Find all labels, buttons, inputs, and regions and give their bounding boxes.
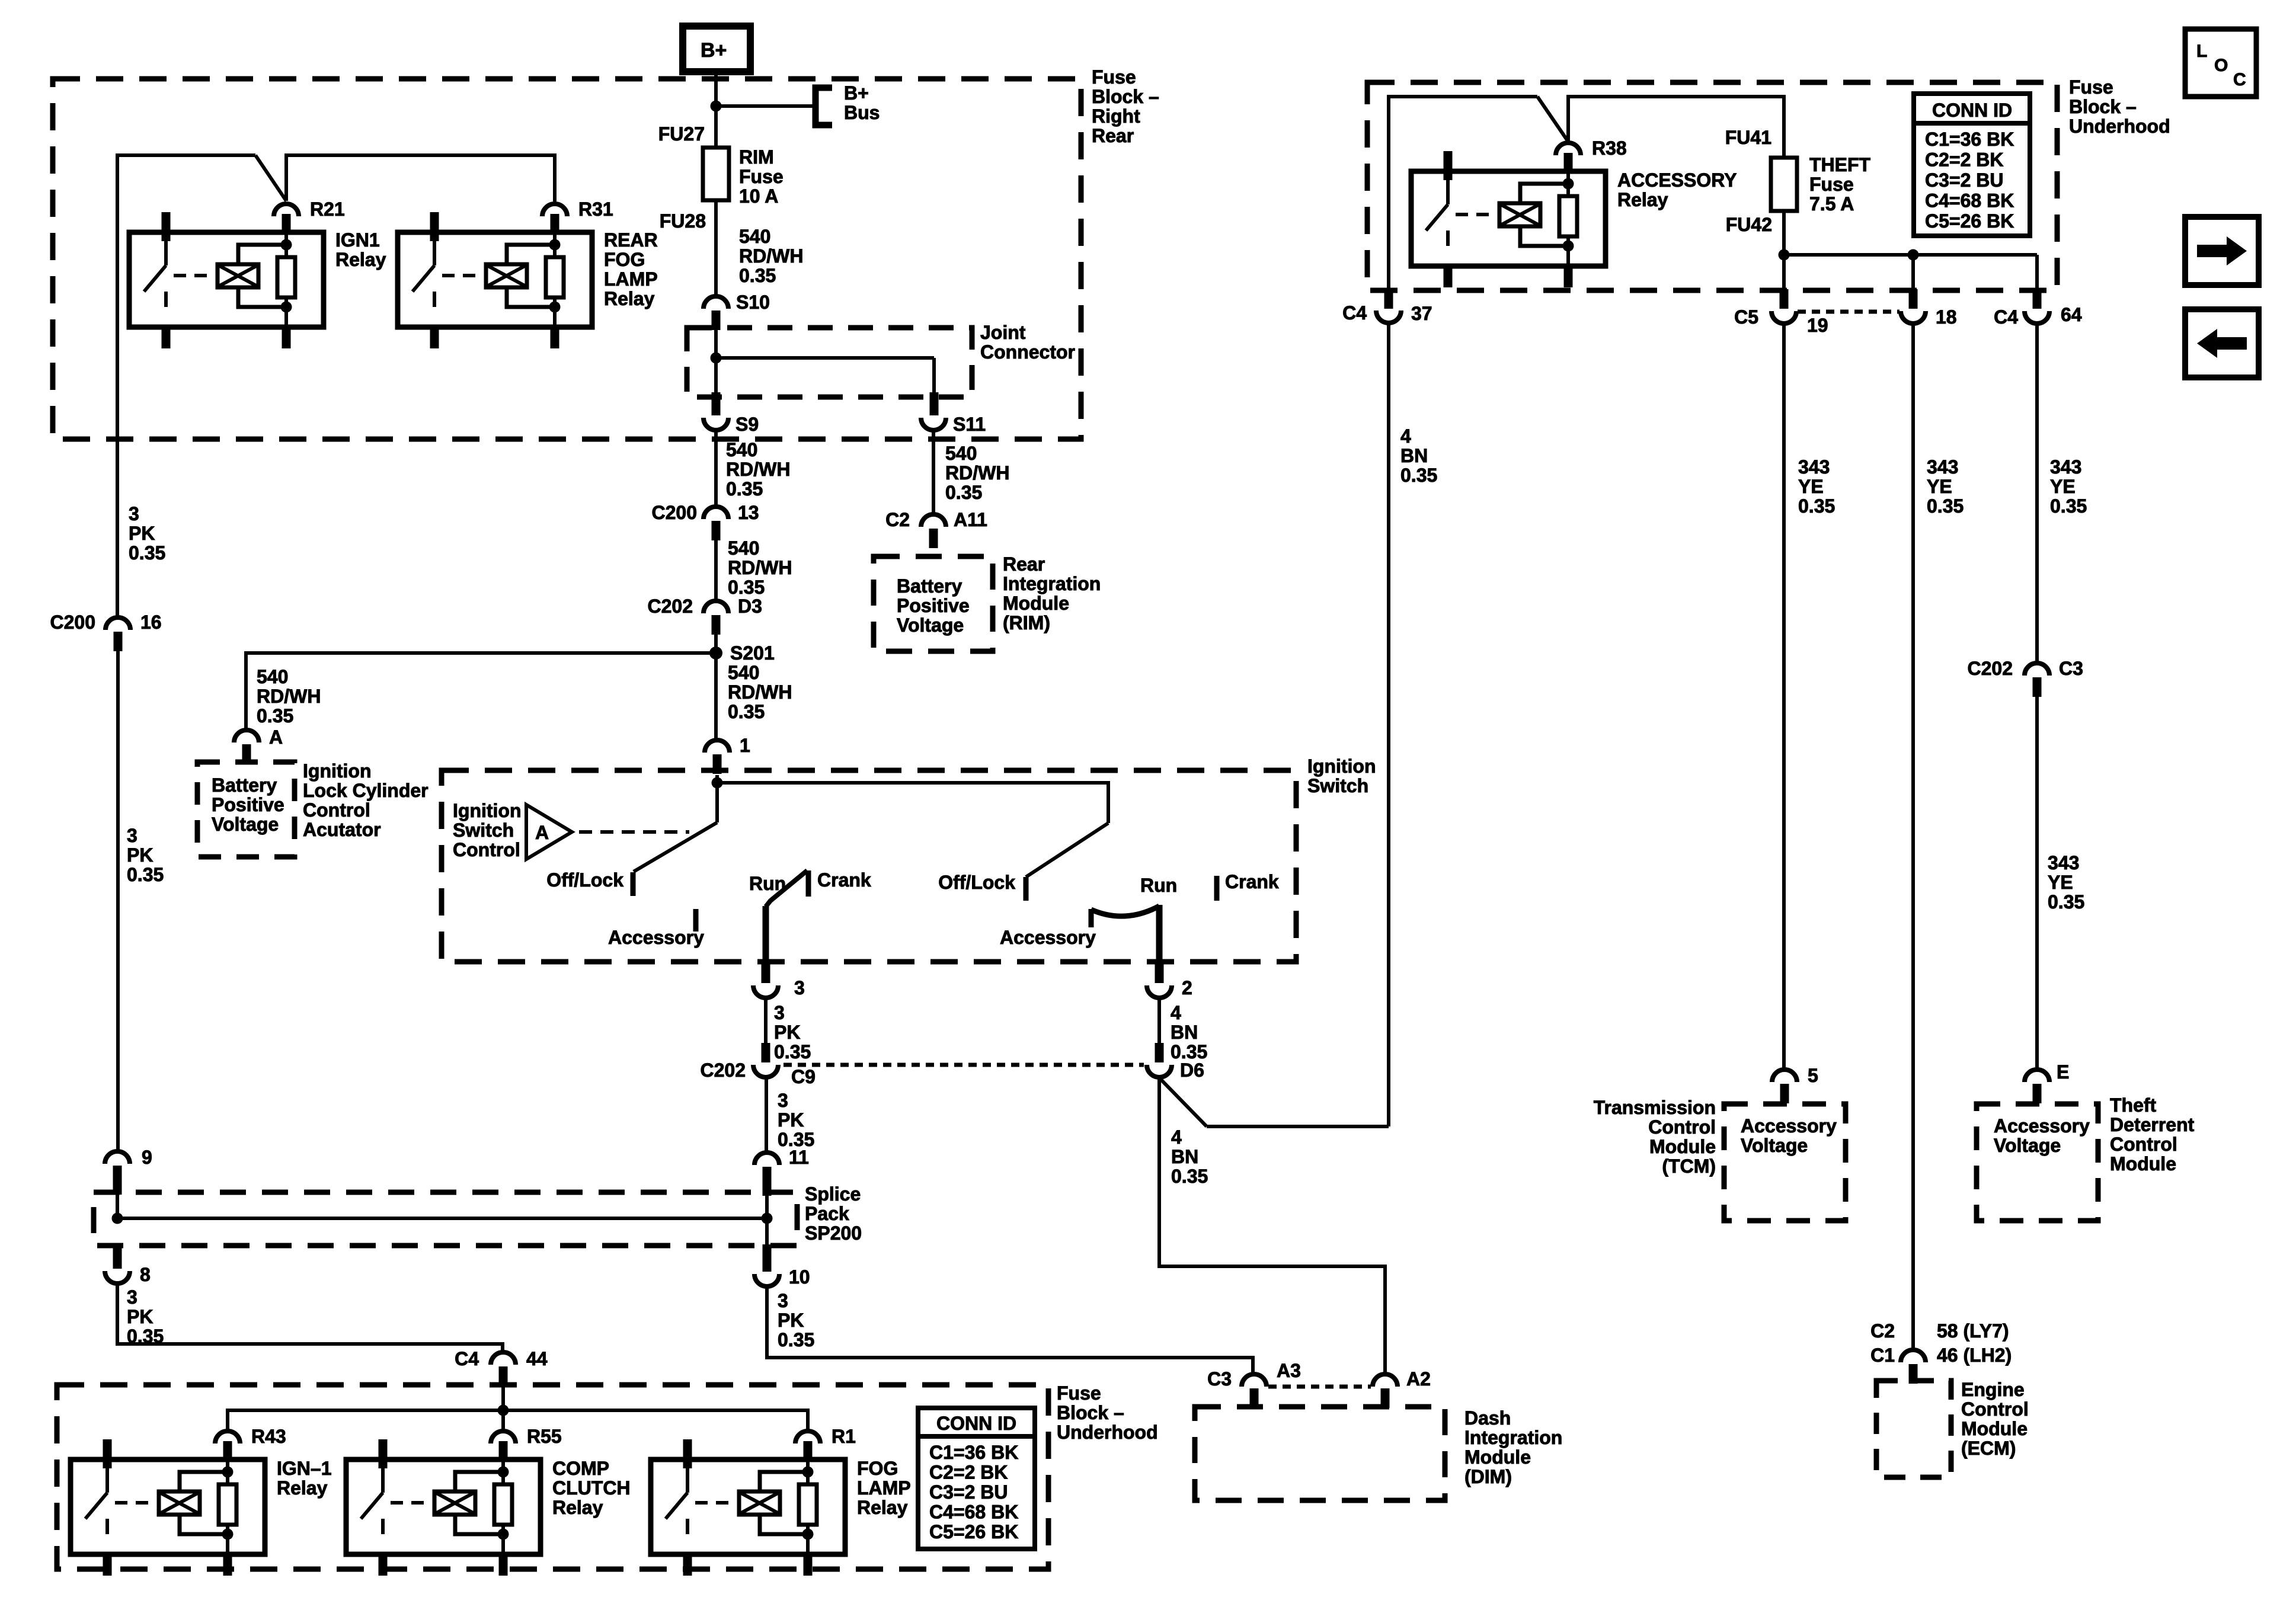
svg-text:2: 2: [1182, 977, 1192, 998]
wire D6 jog to riser: [1160, 1079, 1389, 1126]
wire fuse to bus: [1782, 211, 1786, 255]
wire C200-16 down: [116, 651, 120, 1152]
relay R1 (fog lamp): [651, 1426, 856, 1576]
svg-text:Accessory: Accessory: [1741, 1115, 1837, 1137]
svg-text:FOG: FOG: [857, 1458, 898, 1479]
wire 19 down: [1782, 324, 1786, 1070]
svg-text:C200: C200: [50, 612, 96, 633]
svg-text:Underhood: Underhood: [1057, 1422, 1158, 1443]
svg-text:58 (LY7): 58 (LY7): [1937, 1320, 2009, 1342]
contact run bank1: [749, 870, 807, 907]
node splice right: [762, 1213, 773, 1224]
svg-text:C4: C4: [455, 1348, 479, 1369]
fuse block underhood label (bottom): [1057, 1382, 1158, 1443]
svg-text:343: 343: [1798, 456, 1830, 478]
connector ignition pin 3: [753, 962, 805, 998]
svg-text:Module: Module: [2110, 1153, 2176, 1174]
svg-text:C200: C200: [652, 502, 698, 523]
svg-text:Voltage: Voltage: [1741, 1135, 1808, 1156]
wire label 4 BN 0.35 (pin2): [1171, 1002, 1207, 1062]
connector C4 pin 37: [1342, 289, 1432, 324]
fuse block underhood dashed box (top): [1367, 82, 2057, 290]
svg-text:D6: D6: [1180, 1060, 1204, 1081]
svg-text:3: 3: [774, 1002, 785, 1023]
joint connector box: [687, 328, 972, 397]
svg-text:4: 4: [1171, 1126, 1182, 1148]
svg-text:Acutator: Acutator: [303, 819, 381, 840]
svg-text:0.35: 0.35: [1798, 495, 1835, 517]
wire 8 down to C4-44: [117, 1283, 503, 1352]
fog lamp relay label: [857, 1458, 911, 1518]
connector C202 pin D3: [648, 596, 762, 635]
ignition switch dashed box: [442, 770, 1296, 962]
svg-text:0.35: 0.35: [728, 577, 765, 598]
wire bus R21 to R31: [286, 155, 555, 201]
relay R21 (IGN1): [129, 199, 345, 348]
svg-text:D3: D3: [738, 596, 762, 617]
svg-text:Fuse: Fuse: [1057, 1382, 1101, 1404]
rear integration module label: [1003, 553, 1101, 633]
svg-text:A3: A3: [1277, 1360, 1301, 1381]
theft deterrent control module label: [2110, 1094, 2195, 1174]
contact off/lock bank1: [546, 869, 633, 896]
svg-text:3: 3: [127, 825, 137, 846]
wire 64 down: [2035, 324, 2039, 663]
contact accessory bank2: [1000, 909, 1096, 948]
svg-text:Relay: Relay: [857, 1497, 908, 1518]
connector C200 pin 16: [50, 612, 162, 651]
svg-text:R38: R38: [1592, 137, 1627, 159]
svg-text:S10: S10: [736, 292, 770, 313]
svg-text:C2: C2: [885, 509, 910, 530]
theft fuse label: [1809, 154, 1871, 215]
svg-text:10 A: 10 A: [739, 185, 778, 207]
svg-text:C3: C3: [1207, 1368, 1232, 1390]
svg-text:S9: S9: [736, 414, 759, 435]
svg-text:C2: C2: [1870, 1320, 1895, 1342]
svg-text:YE: YE: [2048, 872, 2073, 893]
svg-text:540: 540: [726, 439, 757, 460]
svg-text:0.35: 0.35: [1927, 495, 1964, 517]
svg-text:0.35: 0.35: [129, 542, 165, 564]
svg-text:Fuse: Fuse: [1092, 66, 1136, 88]
svg-text:FU42: FU42: [1726, 214, 1772, 235]
svg-text:C202: C202: [648, 596, 693, 617]
svg-text:0.35: 0.35: [739, 265, 776, 286]
B+ bus terminal: [816, 82, 880, 125]
svg-text:Relay: Relay: [1617, 189, 1668, 210]
svg-text:PK: PK: [127, 1306, 153, 1327]
wire label 540 RD/WH 0.35 (fuse): [739, 226, 803, 286]
svg-text:540: 540: [945, 443, 977, 464]
svg-text:(RIM): (RIM): [1003, 612, 1050, 633]
svg-text:10: 10: [789, 1266, 810, 1288]
svg-text:Rear: Rear: [1092, 125, 1134, 146]
ignition lock cylinder label: [303, 760, 428, 840]
conn id table (top): [1914, 94, 2030, 236]
connector 8: [105, 1244, 151, 1285]
wire label 343 YE 0.35 (64): [2050, 456, 2087, 517]
svg-text:Accessory: Accessory: [1000, 927, 1096, 948]
svg-text:FU27: FU27: [658, 123, 705, 145]
wire label 540 RD/WH 0.35 (branch): [257, 666, 321, 726]
svg-text:1: 1: [740, 735, 750, 756]
svg-text:C1=36 BK: C1=36 BK: [1925, 129, 2014, 150]
svg-text:Crank: Crank: [1225, 871, 1279, 892]
svg-text:BN: BN: [1400, 445, 1428, 466]
svg-text:Module: Module: [1649, 1136, 1716, 1157]
svg-text:Switch: Switch: [1307, 775, 1368, 796]
svg-text:C: C: [2233, 70, 2246, 89]
svg-text:0.35: 0.35: [127, 1326, 164, 1347]
svg-text:Voltage: Voltage: [897, 614, 964, 636]
engine control module box: [1876, 1381, 1951, 1477]
svg-text:Off/Lock: Off/Lock: [938, 872, 1015, 893]
svg-text:B+: B+: [844, 82, 869, 104]
svg-text:LAMP: LAMP: [604, 268, 658, 290]
back arrow box: [2185, 309, 2259, 377]
wire bus corner to C4-64: [2035, 255, 2039, 292]
wire label 540 RD/WH 0.35 (S11): [945, 443, 1009, 503]
svg-text:0.35: 0.35: [774, 1041, 811, 1062]
svg-text:C3=2 BU: C3=2 BU: [929, 1481, 1008, 1503]
dashed control link: [579, 830, 689, 834]
svg-text:Voltage: Voltage: [212, 814, 279, 835]
dotted connector line C9-D6: [784, 1063, 1144, 1067]
wire pin1 into switch: [715, 775, 719, 783]
wire D6 down to DIM: [1159, 1077, 1385, 1374]
connector C202 pin D6: [1147, 1043, 1204, 1081]
splice bus line: [117, 1217, 767, 1220]
wire 9 into splice: [116, 1185, 119, 1218]
wire label 3 PK 0.35 (left1): [129, 503, 165, 564]
wire left column top: [117, 155, 255, 617]
svg-text:RD/WH: RD/WH: [728, 557, 792, 578]
svg-text:Rear: Rear: [1003, 553, 1045, 575]
svg-text:A11: A11: [954, 509, 987, 530]
svg-text:13: 13: [738, 502, 759, 523]
svg-text:Splice: Splice: [805, 1183, 861, 1205]
relay feed bus (bottom): [228, 1410, 808, 1430]
svg-text:C4: C4: [1994, 306, 2018, 328]
contact crank bank1: [808, 869, 871, 897]
svg-text:C202: C202: [1968, 658, 2013, 679]
svg-text:PK: PK: [127, 844, 153, 866]
svg-text:0.35: 0.35: [2050, 495, 2087, 517]
wire label 540 RD/WH 0.35 (S9): [726, 439, 790, 500]
contact accessory bank1: [608, 909, 704, 948]
svg-text:RD/WH: RD/WH: [257, 686, 321, 707]
ignition switch control triangle A: [526, 805, 572, 859]
svg-text:E: E: [2057, 1061, 2069, 1083]
svg-text:Positive: Positive: [897, 595, 970, 616]
svg-text:BN: BN: [1171, 1146, 1198, 1167]
svg-text:C2=2 BK: C2=2 BK: [929, 1462, 1008, 1483]
svg-text:Control: Control: [303, 799, 370, 821]
svg-text:A2: A2: [1406, 1368, 1431, 1390]
svg-text:16: 16: [140, 612, 162, 633]
wire C4-37 riser: [1389, 97, 1537, 308]
wire R38 to FU41: [1568, 97, 1784, 158]
wire label 540 RD/WH 0.35 (C200): [728, 537, 792, 598]
svg-text:(DIM): (DIM): [1464, 1466, 1512, 1487]
svg-text:Ignition: Ignition: [1307, 756, 1376, 777]
connector theft pin E: [2025, 1061, 2069, 1103]
svg-text:C4: C4: [1342, 302, 1367, 324]
connector 9: [105, 1147, 152, 1195]
wire C4-37 down: [1387, 324, 1390, 1126]
svg-text:BN: BN: [1171, 1022, 1198, 1043]
svg-text:3: 3: [127, 1286, 137, 1308]
comp clutch relay label: [552, 1458, 631, 1518]
svg-text:CLUTCH: CLUTCH: [552, 1477, 631, 1499]
connector ignition switch pin 1: [705, 735, 750, 774]
svg-text:3: 3: [129, 503, 139, 524]
svg-text:Connector: Connector: [980, 341, 1075, 363]
connector C200 pin 13: [652, 502, 759, 540]
svg-text:0.35: 0.35: [1171, 1166, 1208, 1187]
wire label 3 PK 0.35 (10): [778, 1290, 814, 1350]
wire label 343 YE 0.35 (C3): [2048, 852, 2084, 913]
svg-text:Crank: Crank: [817, 869, 871, 891]
svg-text:3: 3: [778, 1290, 788, 1311]
svg-text:(ECM): (ECM): [1961, 1438, 2016, 1459]
connector C4 pin 44: [455, 1348, 548, 1386]
connector 18: [1901, 255, 1957, 328]
svg-text:Positive: Positive: [212, 794, 284, 815]
svg-text:RD/WH: RD/WH: [726, 459, 790, 480]
svg-text:C4=68 BK: C4=68 BK: [1925, 190, 2014, 212]
splice pack label: [805, 1183, 862, 1244]
svg-text:CONN ID: CONN ID: [1932, 100, 2012, 121]
svg-text:Block –: Block –: [1057, 1402, 1124, 1423]
svg-text:PK: PK: [778, 1109, 804, 1131]
wire S10 into joint connector: [714, 330, 718, 358]
wire C200-13 down: [714, 540, 718, 601]
relay R38 (accessory): [1411, 137, 1627, 287]
svg-text:S201: S201: [730, 642, 775, 664]
svg-text:YE: YE: [1798, 476, 1824, 497]
wire 10 down to C3: [767, 1286, 1253, 1374]
svg-text:64: 64: [2061, 304, 2082, 325]
wire pin2 down: [1157, 999, 1161, 1050]
svg-text:R21: R21: [310, 199, 345, 220]
svg-text:Engine: Engine: [1961, 1379, 2025, 1400]
svg-text:Module: Module: [1003, 593, 1069, 614]
svg-text:7.5 A: 7.5 A: [1809, 193, 1854, 215]
svg-text:PK: PK: [129, 523, 155, 544]
svg-text:A: A: [269, 726, 283, 748]
wire label 3 PK 0.35 (C9): [778, 1090, 814, 1150]
svg-text:Underhood: Underhood: [2069, 116, 2170, 137]
svg-text:Relay: Relay: [335, 249, 386, 270]
fuse FU41 label: [1725, 127, 1771, 148]
connector 10: [754, 1244, 810, 1288]
svg-text:REAR: REAR: [604, 229, 658, 251]
wire label 540 RD/WH 0.35 (S201): [728, 662, 792, 722]
svg-text:Dash: Dash: [1464, 1407, 1511, 1429]
wiper bank2: [1026, 823, 1108, 877]
connector 11: [754, 1147, 809, 1196]
svg-text:C9: C9: [791, 1066, 816, 1087]
wire S201 down to pin 1: [714, 653, 718, 739]
forward arrow box: [2185, 217, 2259, 285]
svg-text:Module: Module: [1464, 1446, 1531, 1468]
svg-text:ACCESSORY: ACCESSORY: [1617, 169, 1737, 191]
svg-text:Switch: Switch: [453, 820, 514, 841]
svg-text:Relay: Relay: [277, 1477, 328, 1499]
node joint connector junction: [711, 353, 722, 364]
svg-text:Joint: Joint: [980, 322, 1026, 343]
svg-text:4: 4: [1171, 1002, 1181, 1023]
connector S9: [703, 358, 759, 435]
svg-text:Right: Right: [1092, 105, 1140, 127]
svg-text:RIM: RIM: [739, 146, 774, 168]
node bus C4-44: [498, 1405, 509, 1416]
svg-text:0.35: 0.35: [2048, 891, 2084, 913]
svg-text:Block –: Block –: [1092, 86, 1159, 107]
battery positive voltage label: [212, 774, 284, 835]
RIM fuse value label: [739, 146, 784, 207]
svg-text:Ignition: Ignition: [453, 800, 522, 821]
svg-text:Off/Lock: Off/Lock: [546, 869, 623, 891]
fuse FU27 label: [658, 123, 705, 145]
connector C4 pin 64: [1994, 289, 2082, 328]
wire label 343 YE 0.35 (18): [1927, 456, 1964, 517]
svg-text:R55: R55: [527, 1426, 562, 1447]
splice S201: [709, 642, 775, 664]
svg-text:Fuse: Fuse: [739, 166, 784, 187]
svg-text:540: 540: [728, 662, 759, 683]
wire run bank1 output: [763, 906, 769, 964]
engine control module label: [1961, 1379, 2029, 1459]
svg-text:540: 540: [257, 666, 288, 687]
wire pin3 down: [764, 999, 768, 1050]
IGN1 relay label: [335, 229, 386, 270]
svg-text:O: O: [2214, 56, 2228, 75]
battery positive voltage box (lock cyl): [197, 762, 295, 857]
wire C3 down: [2035, 696, 2039, 1070]
svg-text:RD/WH: RD/WH: [739, 245, 803, 267]
svg-text:LAMP: LAMP: [857, 1477, 911, 1499]
svg-text:Accessory: Accessory: [608, 927, 704, 948]
svg-text:C4=68 BK: C4=68 BK: [929, 1502, 1018, 1523]
accessory voltage label (theft): [1994, 1115, 2090, 1156]
node B+ bus junction: [711, 101, 722, 112]
svg-text:L: L: [2196, 41, 2207, 61]
svg-text:Theft: Theft: [2110, 1094, 2157, 1116]
wire joint connector horizontal: [716, 356, 934, 360]
svg-text:C5=26 BK: C5=26 BK: [929, 1521, 1018, 1542]
svg-text:Fuse: Fuse: [2069, 76, 2113, 98]
svg-text:343: 343: [1927, 456, 1958, 478]
svg-text:343: 343: [2048, 852, 2079, 873]
svg-text:0.35: 0.35: [945, 482, 982, 503]
dotted connector line A3-A2: [1268, 1385, 1371, 1389]
svg-text:Relay: Relay: [604, 288, 655, 309]
wire branch to bank2: [717, 783, 1108, 823]
svg-text:540: 540: [739, 226, 770, 247]
svg-text:Bus: Bus: [844, 102, 880, 123]
relay R31 (rear fog lamp): [398, 199, 613, 348]
svg-text:19: 19: [1807, 315, 1828, 336]
wire S11 down: [932, 431, 935, 501]
node splice left: [112, 1213, 123, 1224]
svg-text:CONN ID: CONN ID: [936, 1413, 1016, 1434]
svg-text:0.35: 0.35: [726, 478, 763, 500]
fuse block underhood dashed box (bottom): [57, 1385, 1048, 1569]
contact crank bank2: [1217, 871, 1279, 901]
svg-text:FU28: FU28: [660, 210, 706, 232]
svg-text:Transmission: Transmission: [1594, 1097, 1716, 1118]
connector TCM pin 5: [1772, 1065, 1818, 1103]
wire B+ down: [714, 72, 718, 149]
connector DIM C3-A3: [1207, 1360, 1301, 1408]
connector C202 pin C9: [701, 1043, 816, 1087]
svg-text:RD/WH: RD/WH: [945, 462, 1009, 484]
svg-text:Integration: Integration: [1464, 1427, 1562, 1448]
wire label 3 PK 0.35 (8): [127, 1286, 164, 1347]
IGN-1 relay label: [277, 1458, 331, 1499]
wire S201 branch left: [246, 653, 716, 730]
svg-text:SP200: SP200: [805, 1222, 862, 1244]
wire joint connector to S11: [932, 358, 936, 395]
connector A: [234, 726, 283, 764]
dash integration module box: [1195, 1407, 1445, 1500]
svg-text:Deterrent: Deterrent: [2110, 1114, 2195, 1135]
svg-text:YE: YE: [1927, 476, 1952, 497]
svg-text:Module: Module: [1961, 1418, 2028, 1439]
svg-text:(TCM): (TCM): [1662, 1156, 1716, 1177]
accessory voltage bus: [1784, 253, 2037, 257]
svg-text:C5=26 BK: C5=26 BK: [1925, 210, 2014, 232]
svg-text:4: 4: [1400, 425, 1411, 447]
svg-text:A: A: [535, 822, 549, 843]
svg-text:Battery: Battery: [897, 575, 962, 597]
connector S10: [703, 292, 770, 330]
B+ terminal: [683, 26, 750, 72]
svg-text:Battery: Battery: [212, 774, 277, 796]
battery positive voltage label (RIM): [897, 575, 970, 636]
svg-text:0.35: 0.35: [257, 705, 293, 726]
tcm accessory voltage box: [1724, 1104, 1846, 1221]
svg-text:0.35: 0.35: [1400, 465, 1437, 486]
fuse FU27/FU28 RIM Fuse 10A: [703, 148, 729, 200]
wire run bank2 output: [1156, 905, 1163, 964]
wire bus to R21: [117, 155, 286, 201]
connector DIM A2: [1373, 1368, 1431, 1408]
svg-text:Pack: Pack: [805, 1203, 849, 1224]
dotted connector line 19-18: [1798, 310, 1900, 314]
svg-text:B+: B+: [701, 39, 727, 62]
svg-text:COMP: COMP: [552, 1458, 609, 1479]
dash integration module label: [1464, 1407, 1562, 1487]
wire label 3 PK 0.35 (left2): [127, 825, 164, 885]
svg-text:37: 37: [1411, 303, 1432, 324]
relay R43 (IGN-1): [71, 1426, 286, 1576]
svg-text:3: 3: [778, 1090, 788, 1111]
svg-text:PK: PK: [778, 1310, 804, 1331]
rear fog lamp relay label: [604, 229, 658, 309]
wire label 4 BN 0.35 (37): [1400, 425, 1437, 486]
node fuse bus mid: [1908, 249, 1919, 261]
svg-text:R43: R43: [251, 1426, 286, 1447]
connector ignition pin 2: [1147, 962, 1192, 998]
svg-text:Relay: Relay: [552, 1497, 603, 1518]
svg-text:8: 8: [140, 1264, 151, 1285]
svg-text:9: 9: [142, 1147, 152, 1168]
svg-text:Control: Control: [1961, 1398, 2029, 1420]
